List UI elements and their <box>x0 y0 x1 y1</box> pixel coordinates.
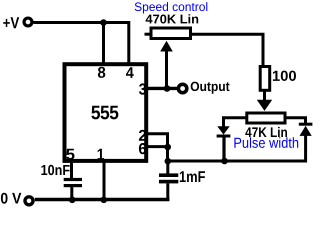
node junction D1 at bottom rail <box>221 158 228 165</box>
pin number 8 <box>98 67 105 78</box>
pin number 2 <box>139 130 146 141</box>
label Pulse width <box>234 137 298 148</box>
terminal +V circle <box>24 18 32 26</box>
wire VR2 right lead down to D2 <box>286 118 306 123</box>
terminal 0V circle <box>25 197 33 205</box>
value label 1mF <box>180 171 205 182</box>
wire C1 to 0V rail <box>70 187 73 200</box>
pin number 5 <box>66 149 74 160</box>
wire VR2 left lead down to D1 <box>224 118 247 127</box>
wire D2 down and bottom rail to pins 2/6 node <box>168 135 306 161</box>
wire pin 1 to 0V rail <box>103 161 106 200</box>
diode D2 cathode up <box>299 124 313 136</box>
potentiometer VR2 47K body <box>247 113 285 123</box>
wire 0V rail <box>35 198 170 201</box>
wire pin 5 to C1 <box>70 161 73 178</box>
label 0 V <box>1 193 21 204</box>
value label 47K Lin <box>245 127 287 137</box>
diode D1 cathode down <box>217 126 231 136</box>
node junction pin 6 <box>164 144 171 151</box>
label Speed control <box>135 2 208 13</box>
terminal Output circle <box>178 84 186 92</box>
wire pin 6 <box>147 145 168 148</box>
label Output <box>191 82 230 94</box>
node junction bottom rail / C2 <box>165 158 172 165</box>
wire VR1 left stub <box>145 33 152 36</box>
wire VR1 right lead to R1 <box>190 34 263 65</box>
wire to pin 4 <box>127 21 130 64</box>
wire D1 to bottom rail <box>222 137 225 161</box>
pin number 6 <box>139 143 146 154</box>
wire to pin 8 <box>102 23 105 65</box>
pin number 4 <box>126 67 134 78</box>
pin number 1 <box>98 149 105 160</box>
wire pin 3 to output <box>146 87 177 90</box>
label +V <box>3 17 19 28</box>
wire rail node to C2 <box>166 161 169 174</box>
capacitor C1 10nF plates <box>64 178 82 187</box>
node junction pin5/C1 on 0V rail <box>69 197 76 204</box>
wire +V rail <box>34 21 130 24</box>
node junction on +V rail <box>100 19 107 26</box>
wire pins 2/6 down to rail node <box>166 147 169 162</box>
value label 10nF <box>41 165 69 175</box>
wire wiper arrow of VR1 speed control <box>160 41 173 89</box>
IC U1 555 timer body <box>65 64 147 161</box>
potentiometer VR1 470K body <box>151 28 191 39</box>
value label 555 <box>91 106 118 120</box>
value label 100 <box>273 71 296 81</box>
resistor R1 100 body <box>260 67 270 91</box>
capacitor C2 1mF plates <box>159 173 178 183</box>
value label 470K Lin <box>146 14 199 23</box>
wire C2 to 0V rail <box>166 183 169 201</box>
node junction on pin 3 wire <box>164 85 171 92</box>
pin number 3 <box>139 83 146 94</box>
node junction pin1 on 0V rail <box>101 197 108 204</box>
wire R1 to VR2 wiper arrow <box>257 91 272 111</box>
wire pin 2 <box>147 134 168 147</box>
